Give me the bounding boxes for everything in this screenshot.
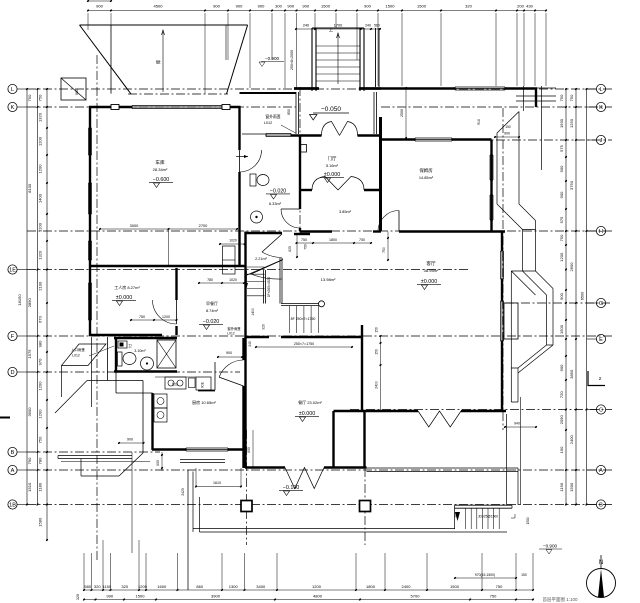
svg-text:750: 750 (496, 584, 503, 589)
svg-text:750: 750 (38, 436, 43, 443)
terrace column axes (246, 430, 248, 545)
svg-text:1500: 1500 (386, 4, 396, 9)
cloak top wall (240, 92, 297, 94)
wall on F axis (246, 336, 270, 338)
entry double door (322, 122, 340, 136)
alcove west wall (363, 411, 365, 468)
living bottom window zigzag (418, 411, 461, 427)
svg-text:车库: 车库 (155, 159, 165, 166)
svg-text:3000: 3000 (130, 223, 139, 228)
axis L (27, 88, 612, 90)
svg-text:300: 300 (275, 4, 282, 9)
kitchen bottom wall (152, 448, 186, 450)
interior stair treads horizontal (247, 266, 265, 268)
svg-text:900: 900 (287, 4, 294, 9)
SE corner verticals to steps (506, 414, 508, 505)
svg-text:保姆房: 保姆房 (419, 167, 433, 174)
svg-text:860: 860 (196, 584, 203, 589)
br steps top edge (455, 504, 513, 506)
svg-text:1510: 1510 (27, 482, 32, 492)
svg-text:2700: 2700 (199, 223, 208, 228)
svg-text:750: 750 (359, 238, 365, 242)
worker room door (153, 300, 177, 324)
svg-text:250×8=2000: 250×8=2000 (290, 50, 294, 70)
porch roof lines (91, 337, 93, 407)
svg-text:1180: 1180 (38, 482, 43, 491)
svg-text:1600: 1600 (157, 584, 167, 589)
svg-text:2400: 2400 (375, 381, 379, 389)
svg-text:2100: 2100 (38, 281, 43, 291)
living right wall (501, 231, 503, 251)
svg-text:150: 150 (375, 349, 379, 355)
toilet U (250, 174, 256, 186)
svg-text:1400: 1400 (251, 308, 255, 316)
svg-text:1200: 1200 (38, 409, 43, 419)
svg-text:1320: 1320 (38, 112, 43, 122)
svg-text:575: 575 (559, 216, 564, 223)
right top dims (495, 136, 519, 138)
svg-text:970(15-1500): 970(15-1500) (475, 573, 495, 577)
svg-text:厨房 10.65m²: 厨房 10.65m² (192, 399, 216, 405)
garage pilasters (111, 105, 119, 110)
svg-text:库: 库 (155, 59, 162, 64)
garage interior dim (100, 228, 237, 230)
svg-text:1200: 1200 (312, 584, 322, 589)
svg-text:1200: 1200 (138, 584, 148, 589)
dining dim (252, 430, 254, 467)
right wedge 2 (511, 271, 553, 295)
svg-text:B: B (599, 503, 603, 509)
right strip 1 (497, 112, 519, 205)
svg-text:1B: 1B (9, 503, 16, 509)
svg-text:8F 250×7=1750: 8F 250×7=1750 (291, 317, 316, 321)
counter top line (155, 376, 196, 378)
right wedge 1 (497, 204, 536, 230)
basin2 (141, 357, 154, 370)
axis circle K left (8, 102, 17, 111)
terrace columns (241, 501, 252, 512)
living small dims (387, 232, 389, 261)
step wall kitchen-dining (244, 450, 246, 469)
svg-text:4800: 4800 (313, 594, 323, 599)
svg-text:6500: 6500 (581, 292, 585, 300)
svg-text:−0.050: −0.050 (321, 106, 341, 113)
svg-text:720: 720 (559, 391, 564, 398)
svg-text:18150: 18150 (17, 294, 22, 306)
foyer inner double door (312, 177, 338, 191)
svg-text:1250: 1250 (569, 118, 574, 128)
svg-text:3.10m²: 3.10m² (134, 349, 146, 353)
svg-text:L012: L012 (227, 332, 235, 336)
svg-text:1500: 1500 (417, 4, 427, 9)
carport roof outline (80, 24, 248, 26)
svg-text:13.98m²: 13.98m² (321, 277, 336, 282)
svg-text:2400: 2400 (402, 584, 412, 589)
garage door arc (240, 150, 262, 172)
axis F (27, 335, 612, 337)
svg-text:灶台: 灶台 (172, 381, 178, 386)
svg-text:1700: 1700 (334, 24, 342, 28)
svg-text:980: 980 (38, 340, 43, 347)
svg-text:3400: 3400 (256, 584, 266, 589)
svg-text:H: H (599, 229, 603, 235)
entry stair arrow (337, 33, 339, 84)
svg-text:上: 上 (329, 26, 333, 32)
svg-text:800: 800 (156, 460, 160, 466)
svg-text:N: N (599, 560, 603, 566)
svg-text:900: 900 (559, 191, 564, 198)
svg-text:L012: L012 (72, 354, 80, 358)
svg-text:3750: 3750 (569, 180, 574, 190)
stair top dims (296, 28, 380, 30)
br steps arrow (455, 512, 460, 521)
svg-text:−0.900: −0.900 (265, 56, 280, 61)
svg-text:1190: 1190 (559, 482, 564, 491)
stair bottom dim (256, 346, 352, 348)
svg-text:入口雨蓬: 入口雨蓬 (71, 347, 85, 352)
svg-text:900: 900 (364, 4, 371, 9)
axis E1 (27, 269, 470, 271)
svg-text:190: 190 (559, 446, 564, 453)
duct box garage corner (223, 246, 236, 274)
svg-text:ICE: ICE (201, 381, 205, 387)
svg-text:150: 150 (375, 327, 379, 333)
dim 1020 (220, 243, 245, 245)
svg-text:750: 750 (490, 594, 497, 599)
svg-text:K: K (11, 105, 15, 111)
bedroom right wall (490, 140, 492, 232)
bottom dimension rows (84, 589, 533, 591)
toilet2 (118, 352, 123, 366)
dining bottom wall (245, 466, 285, 468)
svg-text:575: 575 (559, 144, 564, 151)
compass (587, 569, 616, 598)
axis circle F left (8, 331, 17, 340)
svg-text:B: B (11, 450, 15, 456)
svg-text:JD025@1500: JD025@1500 (478, 515, 498, 519)
porch walls (294, 87, 319, 90)
svg-text:790: 790 (27, 457, 32, 464)
svg-text:900: 900 (258, 4, 265, 9)
axis circle A left (8, 465, 17, 474)
svg-text:L: L (599, 87, 602, 93)
svg-text:工人房 8.27m²: 工人房 8.27m² (114, 284, 140, 290)
br steps treads (465, 508, 467, 529)
kitchen-dining wall (242, 338, 244, 360)
svg-text:250×7=1750: 250×7=1750 (294, 342, 314, 346)
svg-text:560: 560 (374, 24, 380, 28)
svg-text:3900: 3900 (211, 594, 221, 599)
svg-text:A: A (11, 468, 15, 474)
svg-text:1575: 1575 (27, 349, 32, 359)
svg-text:3.85m²: 3.85m² (339, 209, 352, 214)
svg-text:900: 900 (127, 438, 133, 442)
dining bottom door zigzag (285, 468, 324, 489)
svg-text:900: 900 (302, 4, 309, 9)
svg-text:150: 150 (521, 573, 527, 577)
left edge mark (0, 417, 10, 419)
svg-text:8.74m²: 8.74m² (206, 308, 219, 313)
svg-text:1500: 1500 (559, 324, 564, 334)
svg-text:940: 940 (514, 422, 520, 426)
left dim columns (37, 89, 39, 505)
entry stair treads (316, 45, 360, 47)
svg-text:750: 750 (27, 94, 32, 101)
svg-text:2: 2 (599, 376, 602, 382)
axis D (27, 371, 240, 373)
svg-text:餐厅 23.02m²: 餐厅 23.02m² (298, 399, 322, 405)
svg-text:2890: 2890 (27, 298, 32, 308)
svg-text:900: 900 (236, 4, 243, 9)
svg-text:2420: 2420 (181, 488, 185, 496)
svg-text:首层平面图 1:100: 首层平面图 1:100 (542, 596, 578, 603)
svg-text:G: G (599, 301, 603, 307)
right dim columns (565, 89, 567, 505)
svg-text:1500: 1500 (569, 482, 574, 492)
svg-text:1800: 1800 (329, 238, 337, 242)
svg-text:780: 780 (38, 457, 43, 464)
svg-text:1610: 1610 (213, 481, 221, 485)
svg-text:1F×260=4530: 1F×260=4530 (267, 277, 271, 298)
bath310 fixtures: cabinet (118, 341, 127, 348)
svg-text:1020: 1020 (229, 239, 237, 243)
svg-text:240: 240 (365, 24, 371, 28)
axis v foyer (299, 87, 301, 235)
interior stair rails (263, 270, 265, 304)
top-right outer wall (381, 87, 455, 89)
svg-text:1500: 1500 (321, 4, 331, 9)
axis circle B right (596, 500, 605, 509)
svg-text:3500: 3500 (27, 407, 32, 417)
axis circle E left (8, 265, 17, 274)
svg-text:750: 750 (382, 247, 386, 253)
axis A (27, 469, 612, 471)
svg-text:1200: 1200 (162, 315, 170, 319)
svg-text:早餐厅: 早餐厅 (206, 300, 218, 306)
svg-text:900: 900 (559, 292, 564, 299)
terrace west edge (192, 472, 194, 533)
axis circle K right (596, 102, 605, 111)
bath6 door (281, 209, 300, 228)
svg-text:K: K (599, 105, 603, 111)
svg-text:D: D (10, 370, 14, 376)
worker room walls (89, 267, 91, 336)
svg-text:E: E (599, 337, 603, 343)
svg-text:2600: 2600 (569, 262, 574, 272)
svg-text:320: 320 (465, 4, 472, 9)
hall small dims (405, 88, 407, 138)
svg-text:670: 670 (38, 315, 43, 322)
svg-text:1580: 1580 (38, 517, 43, 527)
svg-text:5.16m²: 5.16m² (326, 163, 339, 168)
axis circle bottom left (8, 500, 17, 509)
svg-text:8100: 8100 (27, 183, 32, 193)
bottom small dims (119, 442, 144, 444)
svg-text:820: 820 (288, 246, 292, 252)
kitchen counters: stove (165, 377, 186, 389)
right strip 3 (511, 271, 553, 368)
svg-text:2500: 2500 (400, 109, 404, 117)
svg-text:900: 900 (75, 89, 79, 95)
axis circle L right (596, 84, 605, 93)
bedroom door (378, 211, 399, 232)
svg-text:L012: L012 (264, 121, 272, 125)
svg-text:1500: 1500 (450, 584, 460, 589)
svg-text:门厅: 门厅 (328, 155, 337, 162)
axis circle L left (8, 84, 17, 93)
svg-text:900: 900 (213, 4, 220, 9)
svg-text:1500: 1500 (136, 594, 146, 599)
axis circle E right (596, 334, 605, 343)
lobby top wall (246, 232, 283, 234)
N2 section mark (588, 371, 605, 386)
washbasin (251, 211, 263, 223)
axis bottom (27, 504, 612, 506)
top dimension row (88, 10, 546, 12)
svg-text:150: 150 (454, 512, 458, 518)
svg-text:L: L (11, 87, 14, 93)
shower2 X (157, 340, 176, 368)
svg-text:320: 320 (76, 594, 80, 600)
svg-text:1300: 1300 (229, 584, 239, 589)
svg-text:1930: 1930 (559, 118, 564, 128)
svg-text:900: 900 (559, 165, 564, 172)
axis K (27, 106, 296, 108)
garage top wall (89, 106, 132, 108)
axis circle G right (596, 298, 605, 307)
living bottom wall (362, 410, 418, 412)
interior stair treads vertical (289, 306, 291, 333)
svg-text:6.33m²: 6.33m² (269, 201, 282, 206)
svg-text:1020: 1020 (229, 278, 237, 282)
svg-text:240: 240 (248, 341, 252, 347)
dining left wall (244, 337, 246, 468)
stair break line (247, 260, 283, 276)
living room left wall lower (361, 325, 363, 412)
bedroom top wall (380, 138, 415, 140)
svg-text:2400: 2400 (569, 435, 574, 445)
svg-text:28.34m²: 28.34m² (153, 167, 168, 172)
svg-text:990: 990 (106, 594, 113, 599)
axis circle H right (596, 226, 605, 235)
svg-text:900: 900 (559, 364, 564, 371)
svg-text:240: 240 (303, 24, 309, 28)
axis circle J right (596, 135, 605, 144)
svg-text:1500: 1500 (526, 517, 530, 524)
kitchen door arc (219, 360, 243, 377)
kitchen left wall (151, 393, 153, 450)
svg-text:客厅: 客厅 (426, 260, 436, 267)
sink double (154, 394, 167, 408)
svg-text:580: 580 (84, 584, 91, 589)
svg-text:920: 920 (262, 324, 266, 330)
svg-text:150: 150 (505, 125, 511, 129)
svg-text:750: 750 (569, 94, 574, 101)
svg-text:750: 750 (559, 94, 564, 101)
right wedge 3 (518, 345, 553, 373)
svg-text:窗外雨蓬: 窗外雨蓬 (265, 114, 280, 119)
svg-text:750: 750 (38, 94, 43, 101)
top-right roof lines (516, 87, 556, 89)
svg-text:750: 750 (301, 238, 307, 242)
svg-text:窗外雨蓬: 窗外雨蓬 (227, 326, 241, 331)
fridge ICE (196, 377, 211, 390)
svg-text:1200: 1200 (38, 381, 43, 391)
svg-text:800: 800 (247, 447, 251, 453)
svg-text:1800: 1800 (366, 584, 376, 589)
svg-text:卫: 卫 (128, 344, 132, 348)
bay window right (500, 301, 502, 341)
svg-text:320: 320 (121, 584, 128, 589)
porch canopy outline (87, 380, 143, 382)
svg-text:2090: 2090 (559, 415, 564, 425)
garage right wall (238, 106, 240, 150)
hall-living wall (300, 230, 332, 232)
terrace long lines (193, 528, 455, 530)
axis G (505, 302, 612, 304)
axis v living right wall (502, 108, 504, 430)
bath310 walls (114, 337, 177, 339)
svg-text:−0.900: −0.900 (543, 544, 558, 549)
svg-text:1200: 1200 (38, 164, 43, 174)
right strip 4 (511, 368, 518, 402)
garage bottom wall (89, 265, 246, 267)
svg-text:C: C (599, 408, 603, 414)
door swing arrow (236, 156, 248, 158)
porch roof wedge A (62, 344, 107, 366)
entry stair rails (311, 28, 313, 91)
svg-text:14.85m²: 14.85m² (419, 175, 434, 180)
axis H (27, 230, 612, 232)
breakfast top dim (199, 282, 244, 284)
axis circle D left (8, 367, 17, 376)
terrace upper edge (58, 455, 132, 457)
svg-text:970: 970 (38, 358, 43, 365)
svg-text:900: 900 (226, 351, 232, 355)
axis circle C right (596, 405, 605, 414)
axis circle B left (8, 447, 17, 456)
svg-text:1400: 1400 (38, 193, 43, 203)
svg-text:1200: 1200 (38, 136, 43, 146)
under-hall dims (297, 242, 372, 244)
lobby doors (262, 234, 282, 252)
svg-text:900: 900 (96, 4, 103, 9)
bedroom bottom wall (399, 230, 505, 232)
stair arrow (246, 271, 248, 287)
svg-text:5700: 5700 (411, 594, 421, 599)
axis J (480, 139, 612, 141)
svg-text:200: 200 (517, 4, 524, 9)
svg-text:750: 750 (559, 234, 564, 241)
svg-text:1E: 1E (9, 268, 16, 274)
svg-text:750: 750 (139, 315, 145, 319)
svg-text:1200: 1200 (38, 222, 43, 232)
carport ridge arrow (162, 30, 164, 92)
svg-text:900: 900 (504, 132, 510, 136)
svg-text:430: 430 (526, 4, 533, 9)
svg-text:320: 320 (94, 584, 101, 589)
svg-text:910: 910 (477, 119, 481, 125)
svg-text:4500: 4500 (154, 4, 164, 9)
dining right wall (332, 411, 334, 468)
axis C (350, 409, 612, 411)
svg-text:780: 780 (207, 278, 213, 282)
right strip 2 (523, 230, 536, 272)
axis circle A right (596, 465, 605, 474)
svg-text:1320: 1320 (38, 250, 43, 260)
bath dims (131, 319, 177, 321)
foyer left wall (299, 135, 301, 209)
